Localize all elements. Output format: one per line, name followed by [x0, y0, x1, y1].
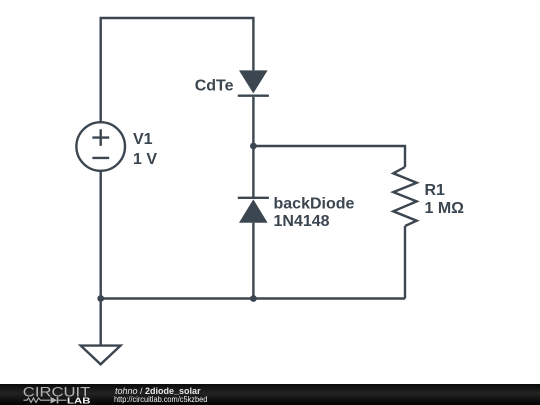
- wire backDiode anode to bottom rail: [252, 223, 254, 299]
- svg-text:V1: V1: [133, 131, 153, 148]
- resistor R1: [393, 167, 416, 226]
- diode CdTe: [238, 70, 269, 95]
- wire R1 bottom: [404, 226, 406, 299]
- svg-text:1 V: 1 V: [133, 151, 157, 168]
- wire node A to backDiode cathode: [252, 146, 254, 198]
- label backDiode 1N4148: [274, 196, 355, 231]
- label V1 value 1 V: [133, 131, 157, 168]
- diode backDiode: [238, 198, 269, 223]
- wire to ground: [99, 299, 101, 346]
- node B junction dot: [97, 295, 104, 302]
- CircuitLab logo: [0, 384, 100, 405]
- label CdTe: [195, 78, 234, 95]
- node C junction dot: [250, 295, 257, 302]
- wire top rail from V1 to CdTe: [101, 18, 254, 122]
- svg-text:1N4148: 1N4148: [274, 213, 330, 230]
- footer title tohno / 2diode_solar: [115, 386, 201, 396]
- footer url: [114, 394, 207, 404]
- label R1 value 1 MOhm: [425, 182, 465, 217]
- svg-text:backDiode: backDiode: [274, 196, 355, 213]
- voltage source V1: [76, 122, 125, 171]
- footer bar: [0, 384, 540, 405]
- wire node A to R1 top: [253, 146, 405, 167]
- wire V1 bottom to bottom rail: [99, 171, 101, 299]
- node A junction dot: [250, 143, 257, 150]
- svg-text:1 MΩ: 1 MΩ: [425, 200, 465, 217]
- wire CdTe cathode to node A: [252, 97, 254, 146]
- svg-text:R1: R1: [425, 182, 446, 199]
- wire bottom rail: [101, 297, 405, 299]
- svg-text:LAB: LAB: [67, 396, 91, 405]
- ground: [81, 346, 121, 365]
- svg-text:CdTe: CdTe: [195, 78, 234, 95]
